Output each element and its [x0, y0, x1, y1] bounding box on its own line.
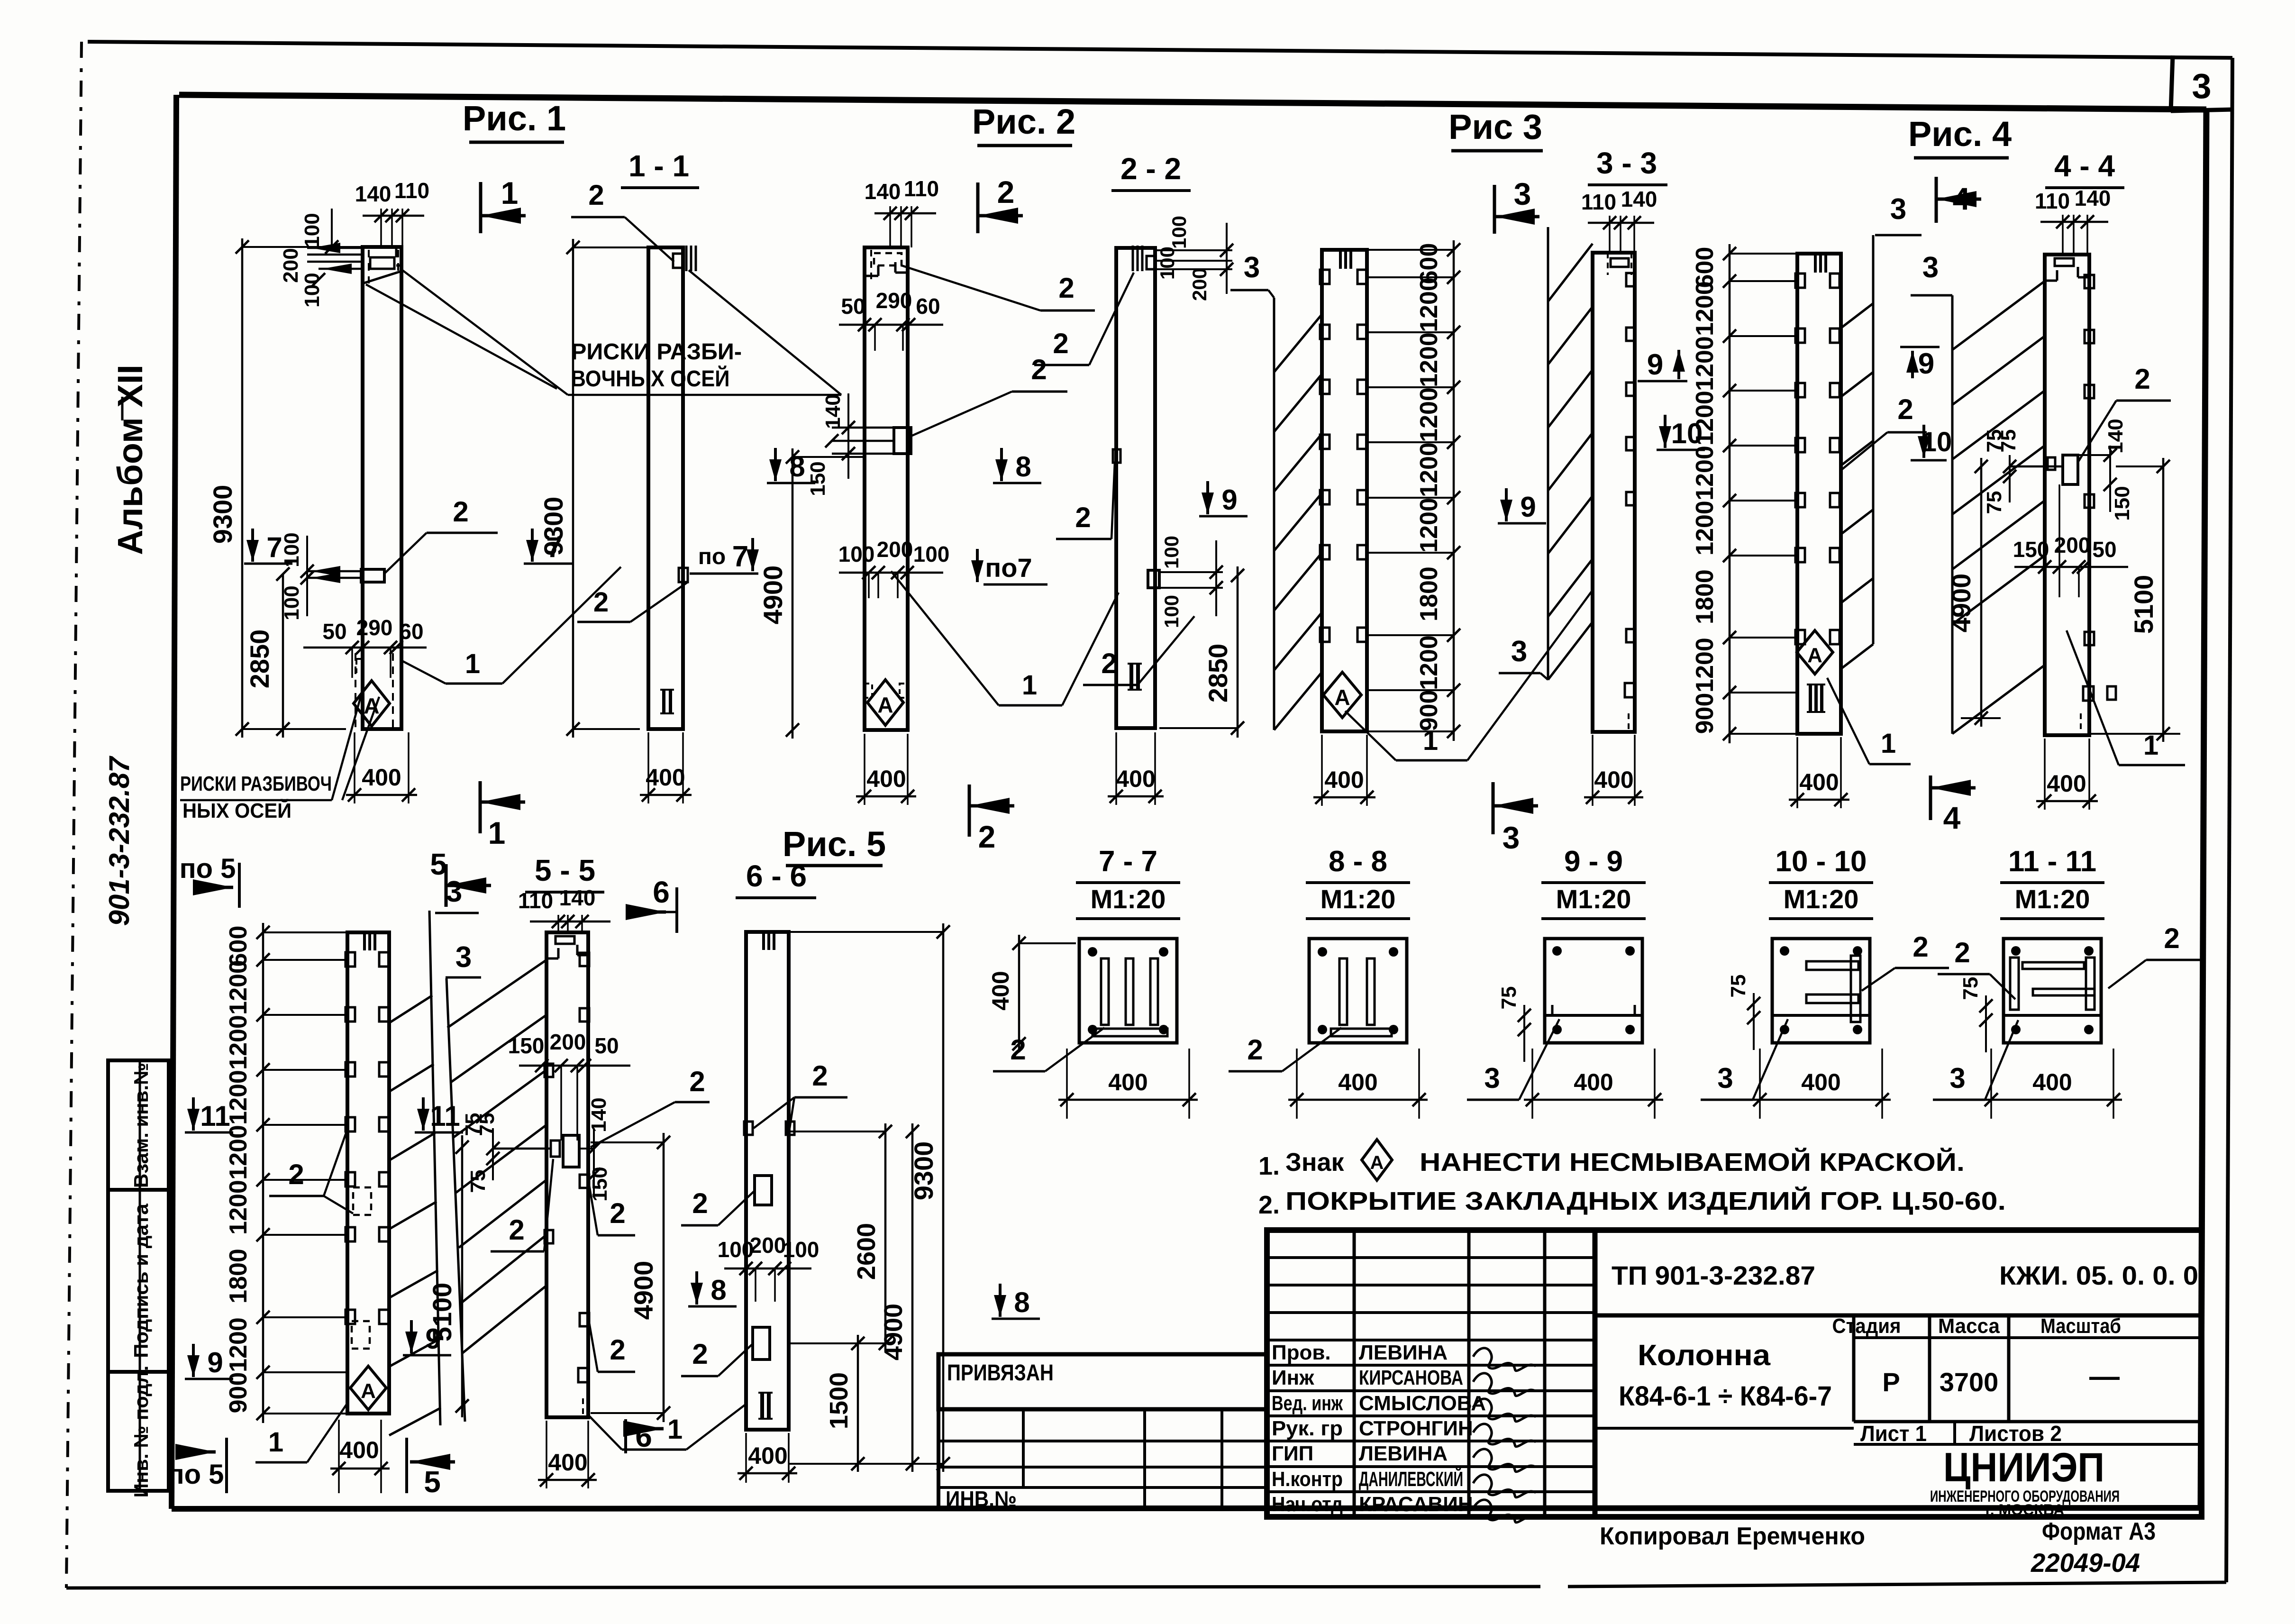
section 5-5 cap dim 110 140 [518, 885, 610, 932]
svg-text:2: 2 [593, 587, 609, 618]
svg-text:Формат А3: Формат А3 [2042, 1518, 2156, 1545]
svg-text:140: 140 [865, 179, 901, 204]
svg-text:1800: 1800 [225, 1249, 252, 1304]
svg-text:Лист 1: Лист 1 [1860, 1421, 1927, 1446]
column K84 elevation fig2 [865, 247, 908, 730]
section 2-2 lower plate with mini dims [1148, 536, 1223, 628]
section 4-4 dim 5100 [2089, 458, 2180, 742]
svg-text:75: 75 [1983, 491, 2006, 514]
outer border left dashed fold line [66, 42, 82, 1588]
svg-text:4900: 4900 [758, 566, 788, 625]
svg-text:2: 2 [692, 1338, 708, 1370]
section cut mark 1 top [479, 182, 483, 233]
svg-text:5100: 5100 [427, 1283, 457, 1342]
svg-text:А: А [877, 693, 893, 717]
fig4 left band cut plane of 4-4 [1911, 251, 2045, 734]
svg-text:4: 4 [1943, 800, 1961, 835]
column K84 elevation fig1 [363, 247, 401, 729]
svg-text:150: 150 [2013, 537, 2049, 562]
svg-text:НЫХ ОСЕЙ: НЫХ ОСЕЙ [182, 798, 291, 822]
svg-text:по: по [698, 544, 726, 569]
svg-text:Рис. 4: Рис. 4 [1908, 114, 2012, 154]
fig5 left dimension ladder [225, 923, 347, 1423]
svg-text:150: 150 [508, 1033, 545, 1058]
section 6-6 dim 1500 [825, 1335, 865, 1472]
section 5-5 right edge plates [546, 953, 589, 1417]
svg-text:4 - 4: 4 - 4 [2054, 149, 2115, 183]
svg-text:1200: 1200 [1691, 638, 1719, 693]
svg-text:1800: 1800 [1691, 569, 1719, 624]
leader 1 between 5-5 and 6-6 [588, 1404, 746, 1450]
section 6-6 lower embedded rect [681, 1327, 770, 1376]
fig1 left dim 9300 [208, 238, 363, 738]
left stamp box 2 [108, 1190, 169, 1372]
svg-text:СТРОНГИН: СТРОНГИН [1359, 1417, 1473, 1440]
column section 1-1 outline [648, 246, 696, 729]
svg-text:1200: 1200 [1691, 446, 1719, 501]
title block signature labels [1272, 1341, 1486, 1516]
svg-text:ЛЕВИНА: ЛЕВИНА [1359, 1442, 1448, 1465]
mark по 7 right of section 1-1 [690, 538, 759, 574]
svg-text:8 - 8: 8 - 8 [1329, 845, 1387, 878]
section 8-8 plate outline [1309, 939, 1407, 1043]
svg-text:9: 9 [1221, 484, 1237, 516]
svg-text:2: 2 [1101, 648, 1117, 679]
svg-text:11 - 11: 11 - 11 [2008, 845, 2096, 878]
svg-text:1200: 1200 [225, 960, 252, 1015]
svg-text:Масштаб: Масштаб [2040, 1314, 2121, 1338]
svg-text:РИСКИ РАЗБИВОЧ: РИСКИ РАЗБИВОЧ [180, 772, 332, 795]
section 4-4 cap dim 110 140 [2035, 186, 2111, 255]
fig4 embedded plates right edge [1830, 274, 1840, 644]
fig2 bottom dashed plate zone and brand mark A [865, 680, 908, 725]
svg-text:290: 290 [356, 615, 393, 640]
svg-text:Альбом XII: Альбом XII [110, 365, 150, 555]
svg-text:А: А [361, 1379, 376, 1403]
svg-text:7: 7 [732, 540, 748, 573]
svg-text:Знак: Знак [1285, 1148, 1344, 1177]
leader 2 fig5 [269, 1129, 353, 1213]
svg-text:140: 140 [821, 394, 845, 429]
fig2 middle plate with dims 140 150 [806, 393, 911, 496]
svg-text:Рис. 5: Рис. 5 [783, 824, 886, 864]
svg-text:5: 5 [424, 1465, 441, 1499]
axis marks text for fig1 [366, 269, 841, 395]
inventory table bottom left of title block [938, 1409, 1267, 1511]
svg-text:Рук. гр: Рук. гр [1272, 1417, 1343, 1440]
fig4 left dimension ladder [1691, 244, 1797, 743]
fig1 cap left extension lines with dims 100 200 100 [279, 209, 363, 308]
svg-text:Н.контр: Н.контр [1272, 1468, 1343, 1491]
svg-text:ИНВ.№: ИНВ.№ [946, 1487, 1017, 1511]
svg-text:75: 75 [1497, 986, 1521, 1010]
svg-text:2: 2 [588, 179, 604, 211]
svg-text:2600: 2600 [852, 1223, 881, 1280]
section cut mark 3 bottom fig3 [1492, 782, 1495, 834]
svg-text:Пров.: Пров. [1272, 1341, 1331, 1364]
fig1 bottom dim 400 [346, 732, 417, 803]
svg-text:2: 2 [692, 1187, 708, 1219]
svg-text:400: 400 [1324, 766, 1364, 793]
fig3 bottom dim 400 [1313, 735, 1375, 806]
svg-text:22049-04: 22049-04 [2031, 1548, 2140, 1578]
svg-text:400: 400 [362, 764, 401, 791]
svg-text:9300: 9300 [538, 497, 568, 556]
fig1 dim 50 290 60 [303, 615, 427, 678]
svg-text:2: 2 [288, 1159, 304, 1190]
svg-text:ПРИВЯЗАН: ПРИВЯЗАН [947, 1360, 1054, 1386]
svg-text:2: 2 [2164, 922, 2179, 954]
svg-text:по 5: по 5 [180, 853, 236, 884]
svg-text:КЖИ. 05. 0. 0. 0: КЖИ. 05. 0. 0. 0 [1999, 1260, 2198, 1290]
leader 1 fig3 [1345, 590, 1593, 760]
svg-text:1 - 1: 1 - 1 [628, 149, 689, 183]
svg-text:110: 110 [904, 176, 939, 201]
svg-text:Масса: Масса [1938, 1314, 2000, 1338]
svg-text:2850: 2850 [245, 630, 274, 689]
svg-text:2: 2 [1031, 354, 1047, 385]
fig1 dim 2850 [245, 567, 290, 738]
svg-text:400: 400 [1594, 766, 1633, 793]
page number box [2171, 55, 2233, 111]
leader 2 section 10-10 [1862, 931, 1949, 991]
section 5-5 bottom dim 400 [538, 1421, 597, 1488]
title block list row [1595, 1421, 2202, 1446]
svg-text:М1:20: М1:20 [1784, 884, 1859, 914]
mark по 7 right of fig2 [971, 549, 1047, 584]
svg-text:110: 110 [394, 178, 429, 203]
leader 2 middle plate fig2 [911, 354, 1067, 436]
svg-text:А: А [364, 693, 379, 718]
svg-text:50: 50 [594, 1033, 619, 1058]
section cut mark 6 bottom [623, 1419, 664, 1453]
label 3 top fig5 band [435, 876, 479, 913]
fig3 embedded plates left edge [1320, 270, 1330, 642]
svg-text:100: 100 [1160, 536, 1183, 569]
svg-text:400: 400 [1574, 1069, 1613, 1095]
svg-text:1: 1 [1423, 725, 1438, 756]
section 1-1 middle plate right edge [577, 568, 688, 622]
svg-text:150: 150 [806, 461, 829, 496]
svg-text:400: 400 [1108, 1069, 1147, 1095]
section 5-5 dim 5100 [427, 1135, 469, 1417]
svg-text:7 - 7: 7 - 7 [1099, 845, 1157, 878]
section 9-9 plate outline [1545, 939, 1642, 1043]
section 4-4 right edge plates [2045, 275, 2116, 735]
section 10-10 dim 400 [1759, 1049, 1761, 1119]
section cut mark 3 top fig3 [1493, 185, 1496, 234]
svg-text:1.: 1. [1258, 1152, 1280, 1180]
svg-text:Вед. инж: Вед. инж [1272, 1392, 1343, 1415]
fig4 right band cut plane 3 [1841, 193, 1922, 669]
svg-text:3: 3 [1717, 1062, 1733, 1094]
column K84 elevation fig5 [347, 932, 389, 1414]
svg-text:9 - 9: 9 - 9 [1564, 845, 1623, 878]
section 1-1 dim 9300 [538, 239, 648, 738]
svg-text:9: 9 [1520, 491, 1536, 523]
fig2 cap dim 140 110 [865, 176, 939, 247]
svg-text:ВОЧНЫХ ОСЕЙ: ВОЧНЫХ ОСЕЙ [571, 365, 730, 392]
leader 2 top section 2-2 [1034, 273, 1134, 365]
svg-text:3: 3 [1484, 1062, 1500, 1094]
svg-text:РИСКИ РАЗБИ-: РИСКИ РАЗБИ- [571, 339, 742, 365]
svg-text:2: 2 [509, 1214, 524, 1246]
svg-text:3: 3 [1514, 176, 1531, 211]
title block left table verticals [1354, 1230, 1595, 1517]
leader 2 right section 11-11 [2108, 922, 2200, 988]
svg-text:М1:20: М1:20 [1091, 884, 1166, 914]
svg-text:Рис. 2: Рис. 2 [972, 102, 1075, 141]
svg-text:1: 1 [465, 648, 480, 679]
svg-text:3: 3 [455, 941, 472, 974]
svg-text:2: 2 [1058, 272, 1074, 304]
section 11-11 left dim 75 [1959, 977, 1993, 1052]
svg-text:4900: 4900 [628, 1261, 658, 1320]
svg-text:10 - 10: 10 - 10 [1775, 845, 1867, 878]
section 3-3 right edge plates [1593, 273, 1635, 732]
svg-text:100: 100 [718, 1237, 754, 1262]
svg-text:2.: 2. [1258, 1191, 1280, 1219]
svg-text:Р: Р [1882, 1367, 1900, 1397]
svg-text:75: 75 [1727, 975, 1750, 998]
svg-text:110: 110 [2035, 189, 2070, 213]
svg-text:2: 2 [1247, 1034, 1263, 1066]
svg-text:3: 3 [1949, 1062, 1965, 1094]
column K84 elevation fig4 [1797, 254, 1841, 734]
title block outer frame [1267, 1230, 2202, 1517]
svg-text:140: 140 [2075, 186, 2111, 210]
svg-text:5: 5 [430, 847, 447, 881]
svg-text:ГИП: ГИП [1272, 1442, 1313, 1465]
svg-text:1200: 1200 [1415, 332, 1443, 387]
section 6-6 dim 4900 [879, 1123, 919, 1472]
fig4 brand mark A and channel symbol [1797, 630, 1833, 712]
section cut mark 4 bottom fig4 [1929, 776, 1932, 820]
svg-text:50: 50 [841, 294, 865, 319]
svg-text:8: 8 [1014, 1286, 1029, 1318]
svg-text:КИРСАНОВА: КИРСАНОВА [1359, 1366, 1463, 1389]
svg-text:140: 140 [355, 182, 392, 206]
left stamp box 1 [108, 1060, 169, 1190]
mark по 5 bottom left [168, 1438, 227, 1493]
svg-text:3: 3 [1244, 251, 1260, 284]
section cut mark 2 bottom fig2 [968, 785, 971, 837]
leader 2 to special plate 4-4 [2078, 363, 2171, 462]
svg-text:140: 140 [559, 885, 596, 910]
title block left table horizontals [1267, 1258, 1595, 1492]
svg-text:1: 1 [1022, 670, 1037, 701]
svg-text:1200: 1200 [1691, 336, 1719, 391]
title block document numbers [1612, 1260, 2198, 1290]
leader 3 section 10-10 [1701, 1019, 1788, 1100]
svg-text:400: 400 [1799, 769, 1839, 795]
leader 1 section 4-4 [2067, 630, 2185, 765]
outer border top line [88, 42, 2232, 58]
svg-text:Рис 3: Рис 3 [1448, 107, 1542, 146]
svg-text:1: 1 [268, 1427, 283, 1458]
section 6-6 dim 2600 [789, 1123, 892, 1352]
svg-text:1200: 1200 [1691, 281, 1719, 336]
column K84 elevation fig3 [1322, 250, 1367, 731]
outer border right line [2226, 58, 2232, 1582]
svg-text:100: 100 [1160, 595, 1183, 628]
section 11-11 plate outline [2004, 939, 2101, 1043]
svg-text:2: 2 [1897, 393, 1913, 425]
outer border bottom line [66, 1587, 1540, 1588]
section 7-7 plate outline [1079, 939, 1177, 1043]
column section 4-4 outline [2045, 255, 2089, 735]
left stamp box 3 [108, 1372, 169, 1491]
section cut mark 4 top fig4 [1935, 177, 1938, 223]
leader 2 top 6-6 [754, 1060, 847, 1128]
svg-text:1500: 1500 [825, 1372, 853, 1429]
title block signatures handwriting [1473, 1348, 1536, 1523]
svg-text:11: 11 [200, 1100, 230, 1132]
svg-text:400: 400 [2047, 770, 2086, 797]
svg-text:400: 400 [1338, 1069, 1377, 1095]
leader 1 fig5 bottom [255, 1403, 347, 1462]
title block product name [1619, 1339, 1832, 1412]
svg-text:200: 200 [877, 537, 913, 562]
svg-text:5100: 5100 [2129, 575, 2158, 634]
fig2 bottom dim 400 [856, 734, 916, 805]
note line 1 [1258, 1140, 1965, 1180]
svg-text:1200: 1200 [1415, 387, 1443, 442]
svg-text:3700: 3700 [1940, 1367, 1999, 1397]
section 7-7 left dim 400 [1018, 935, 1020, 1052]
svg-text:1200: 1200 [225, 1180, 252, 1235]
svg-text:3: 3 [1922, 251, 1939, 284]
svg-text:ДАНИЛЕВСКИЙ: ДАНИЛЕВСКИЙ [1359, 1467, 1463, 1491]
leader 2 and mark 10 down fig4 [1841, 393, 1952, 470]
svg-text:3: 3 [1511, 635, 1527, 668]
svg-text:1200: 1200 [225, 1015, 252, 1070]
svg-text:2: 2 [978, 819, 996, 854]
fig5 band cut plane [389, 911, 441, 1435]
fig1 bottom dashed zone with brand mark A [354, 653, 393, 729]
leader 2 to middle plate fig1 [384, 496, 498, 574]
fig4 dim 4900 [1946, 458, 2001, 727]
fig2 dim 50 290 60 [839, 288, 943, 351]
fig5 embedded plates left edge [346, 952, 355, 1324]
svg-text:6: 6 [653, 875, 670, 909]
svg-text:1200: 1200 [1691, 501, 1719, 556]
section 2-2 top right mini dims [1155, 216, 1233, 301]
svg-text:4900: 4900 [879, 1304, 908, 1360]
fig3 left hatch band with label 3 [1230, 251, 1322, 730]
svg-text:М1:20: М1:20 [1556, 884, 1631, 914]
section 9-9 dim 400 [1531, 1049, 1533, 1119]
leader 2 cap fig2 [902, 265, 1095, 310]
svg-text:8: 8 [1015, 451, 1031, 483]
svg-text:100: 100 [838, 542, 875, 566]
section cut mark 6 top [626, 875, 677, 933]
section 6-6 dim 9300 [789, 923, 950, 1472]
svg-text:200: 200 [1188, 268, 1211, 301]
svg-text:50: 50 [2092, 537, 2116, 562]
leader 3 section 11-11 [1933, 1020, 2018, 1100]
svg-text:Рис. 1: Рис. 1 [463, 99, 566, 138]
svg-text:400: 400 [748, 1442, 787, 1469]
svg-text:200: 200 [750, 1233, 786, 1258]
svg-text:400: 400 [987, 971, 1014, 1010]
section 4-4 bottom dim 400 [2036, 739, 2098, 810]
note line 2 [1258, 1186, 2006, 1219]
mark по 5 top left [180, 853, 239, 908]
column section 6-6 outline [746, 932, 789, 1430]
svg-text:2: 2 [812, 1060, 828, 1092]
svg-text:400: 400 [2032, 1069, 2072, 1095]
svg-text:400: 400 [866, 766, 906, 792]
svg-text:К84-6-1 ÷ К84-6-7: К84-6-1 ÷ К84-6-7 [1619, 1381, 1832, 1412]
svg-text:50: 50 [322, 619, 346, 644]
title block stage mass values [1882, 1359, 2120, 1397]
svg-text:М1:20: М1:20 [2015, 884, 2090, 914]
svg-text:400: 400 [1801, 1069, 1840, 1095]
section 9-9 left dim 75 [1497, 986, 1531, 1062]
fig3 brand mark A [1323, 672, 1361, 718]
svg-text:100: 100 [301, 213, 324, 247]
leader 2 left section 11-11 [1938, 937, 2015, 999]
svg-text:А: А [1334, 685, 1350, 710]
section 8-8 dim 400 [1296, 1049, 1298, 1119]
section 5-5 left edge plates [545, 1064, 553, 1243]
section 5-5 dim 150 200 50 [508, 1030, 630, 1140]
svg-text:1: 1 [2143, 730, 2158, 761]
svg-text:100: 100 [280, 585, 303, 620]
svg-text:8: 8 [710, 1274, 726, 1306]
section 1-1 bottom dim 400 [640, 732, 692, 803]
leader 2 section 8-8 [1229, 1028, 1341, 1071]
svg-text:400: 400 [548, 1449, 587, 1476]
svg-text:400: 400 [646, 764, 685, 791]
svg-text:9300: 9300 [208, 485, 237, 544]
svg-text:140: 140 [1621, 187, 1657, 211]
fig1 middle embedded plate [280, 532, 384, 620]
svg-text:М1:20: М1:20 [1321, 884, 1396, 914]
svg-text:1200: 1200 [1415, 277, 1443, 332]
svg-text:Нач.отд: Нач.отд [1272, 1493, 1343, 1516]
svg-text:4900: 4900 [1946, 574, 1976, 633]
svg-text:400: 400 [339, 1437, 379, 1463]
section 6-6 dims 100 200 100 [718, 1233, 820, 1302]
section 3-3 cap dim 110 140 [1581, 187, 1657, 253]
svg-text:3: 3 [1890, 193, 1906, 226]
fig4 embedded plates left edge [1795, 274, 1805, 644]
svg-text:100: 100 [913, 542, 950, 566]
svg-text:1200: 1200 [1415, 442, 1443, 497]
mark 9 up fig4 [1900, 347, 1940, 380]
section cut mark 5 top [445, 864, 448, 907]
section cut mark 1 bottom [479, 781, 482, 833]
svg-text:2: 2 [689, 1066, 705, 1097]
section 3-3 bottom dim 400 [1584, 735, 1643, 806]
svg-text:1200: 1200 [225, 1317, 252, 1372]
svg-text:ЛЕВИНА: ЛЕВИНА [1359, 1341, 1448, 1364]
section cut mark 5 bottom [407, 1438, 455, 1499]
svg-text:ЦНИИЭП: ЦНИИЭП [1943, 1445, 2104, 1490]
svg-text:1: 1 [501, 175, 519, 210]
svg-text:75: 75 [466, 1170, 490, 1193]
svg-text:75: 75 [1959, 977, 1982, 1000]
main drawing frame [172, 95, 2206, 1509]
fig1 cap dim 140 110 [355, 178, 429, 247]
column section 5-5 outline [546, 932, 588, 1417]
svg-text:9: 9 [1918, 347, 1934, 380]
section 5-5 dim 4900 [591, 1133, 670, 1422]
svg-text:2: 2 [1053, 328, 1068, 359]
svg-text:2: 2 [610, 1197, 625, 1229]
